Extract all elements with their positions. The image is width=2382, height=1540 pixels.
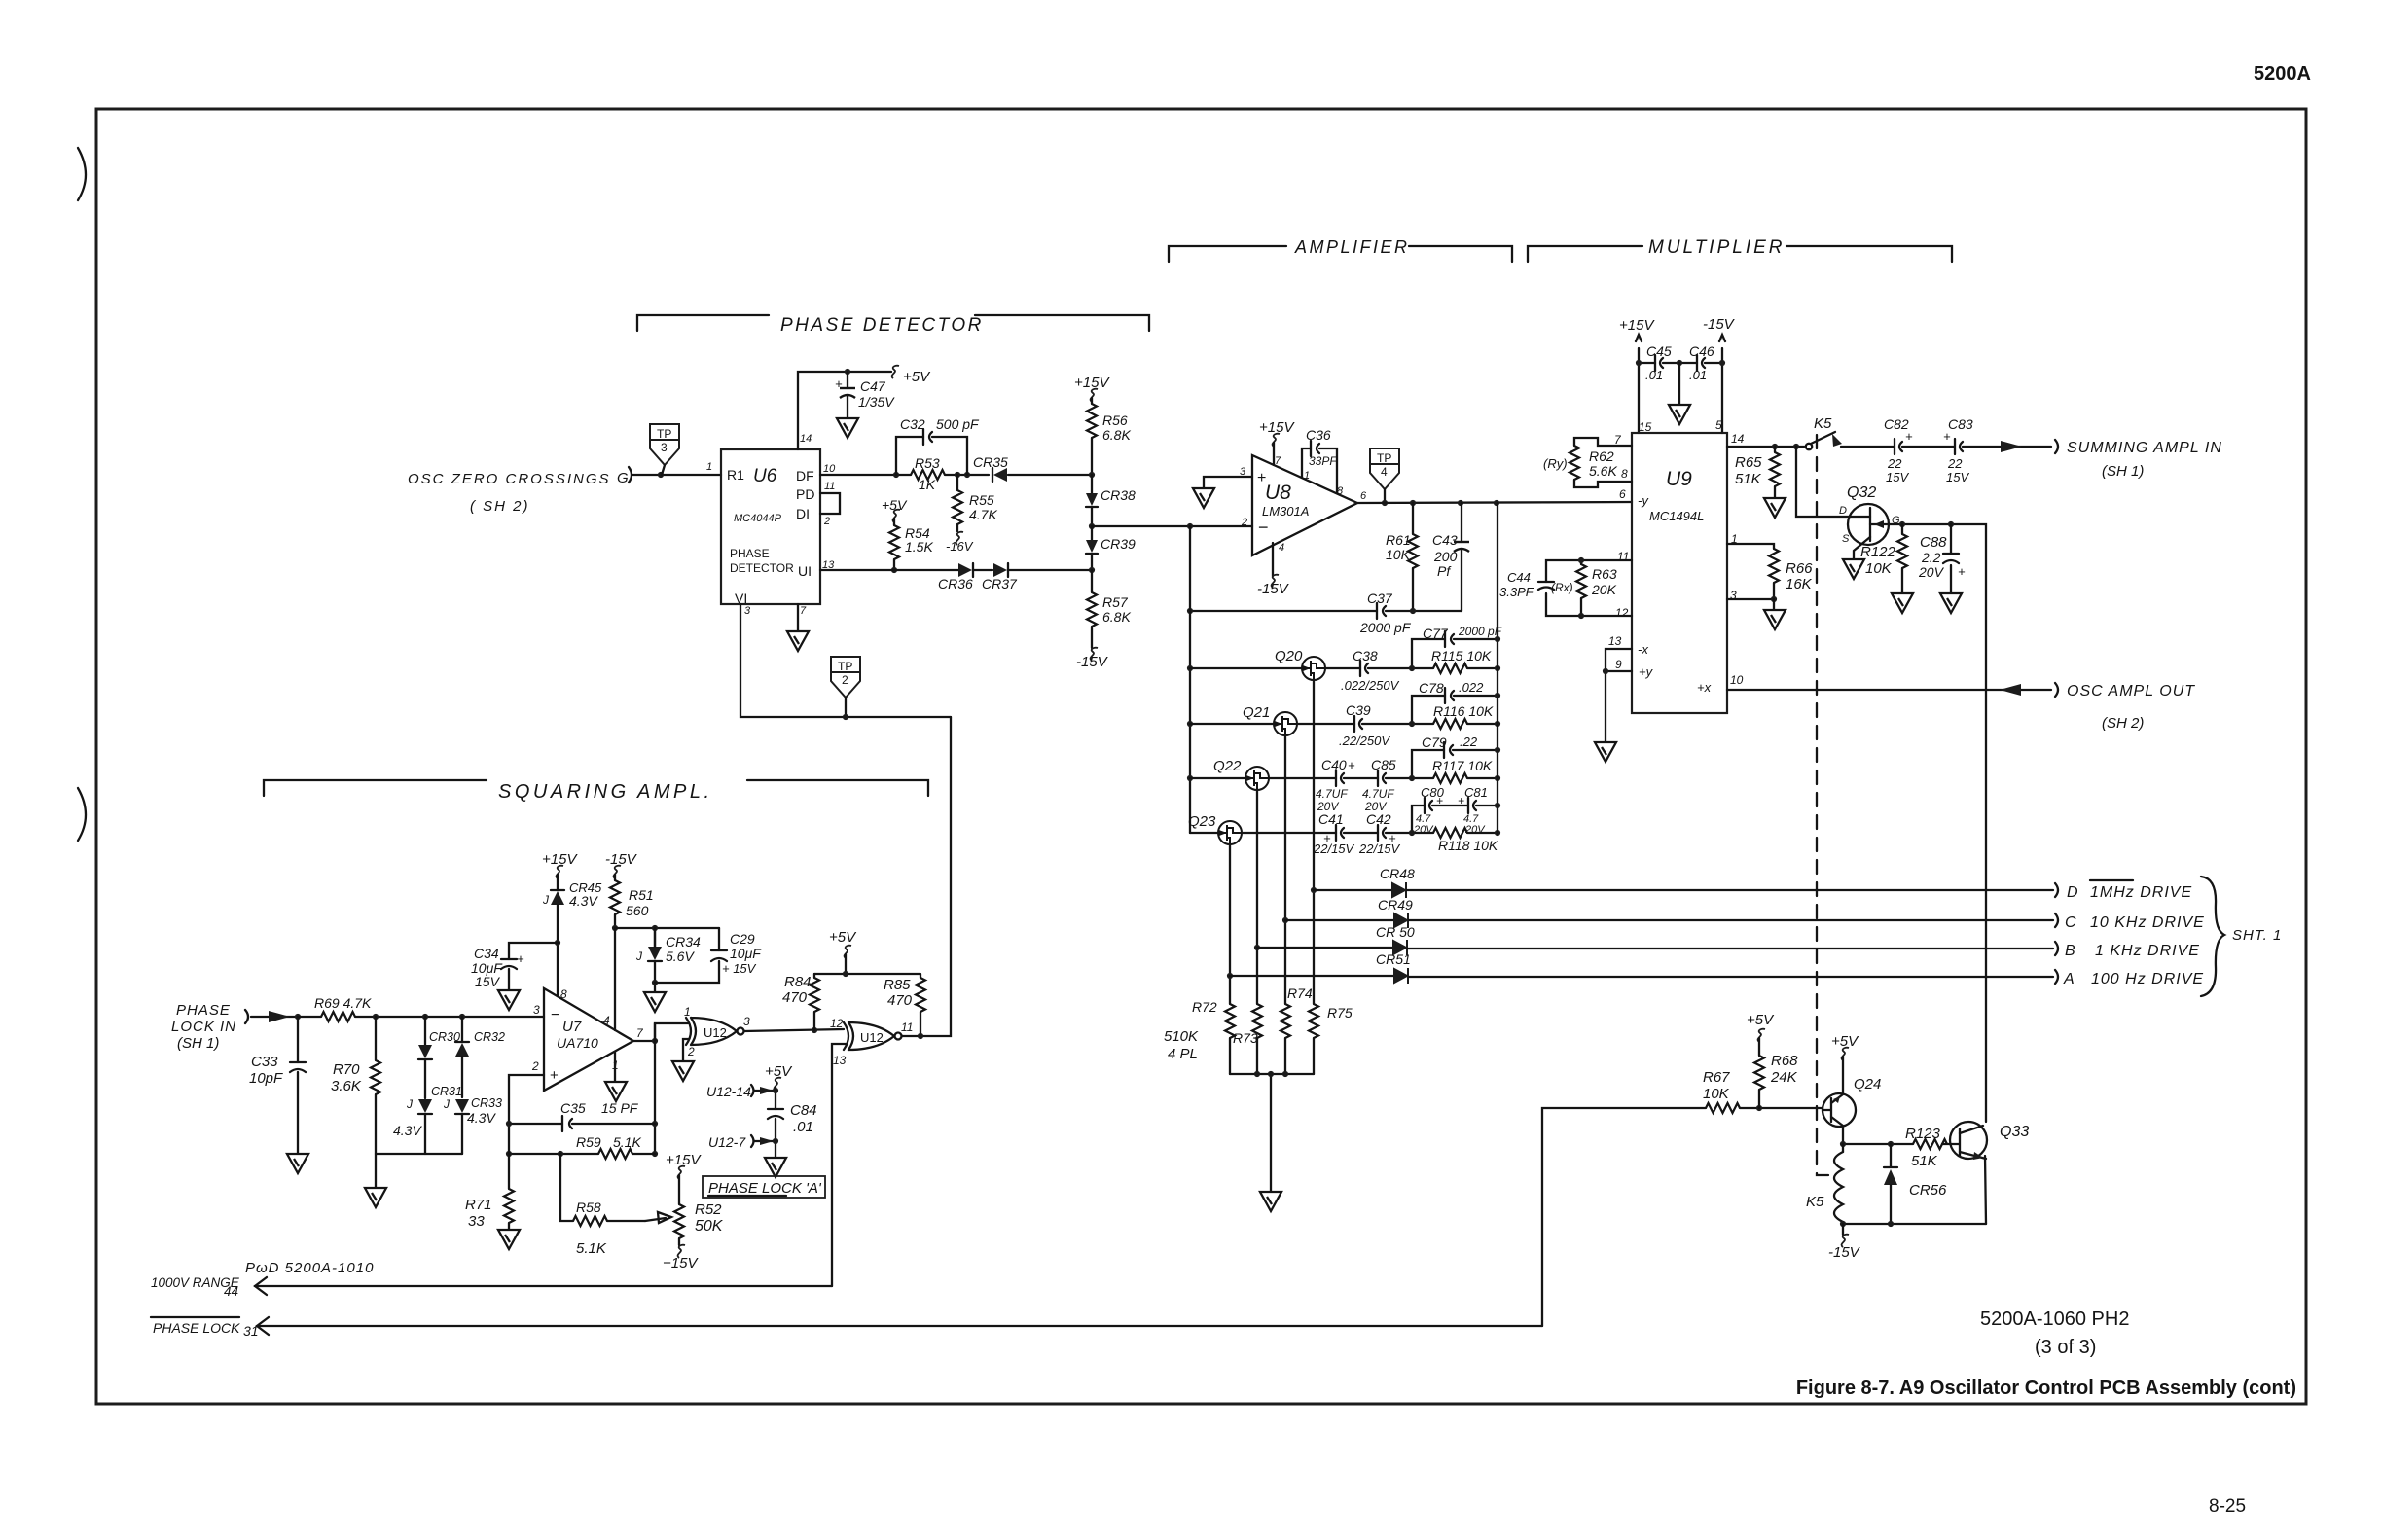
svg-text:C34: C34: [474, 946, 499, 961]
svg-text:10: 10: [823, 463, 836, 475]
node +5V rail label: [892, 366, 932, 385]
transistor Q20: [1190, 648, 1325, 680]
node +15V rail U9: [1619, 317, 1655, 433]
gate U12b: [830, 1017, 913, 1067]
wire U6 pin11 PD to DI loop: [820, 493, 840, 514]
svg-text:+: +: [1905, 429, 1913, 444]
svg-text:( SH 2): ( SH 2): [470, 498, 530, 515]
capacitor C83 22/15V: [1943, 416, 1973, 484]
diode CR32: [455, 1014, 505, 1097]
svg-text:-15V: -15V: [1703, 316, 1736, 333]
node drive line B label: [2055, 942, 2200, 959]
svg-text:R70: R70: [333, 1061, 360, 1078]
svg-text:6: 6: [1619, 487, 1626, 501]
svg-text:C46: C46: [1689, 343, 1714, 359]
svg-text:C77: C77: [1423, 626, 1449, 641]
svg-text:15V: 15V: [1946, 470, 1969, 484]
resistor R66 16K pins 1-3: [1727, 544, 1813, 609]
wire U9 pins 13-9 jog to ground: [1603, 649, 1632, 741]
svg-text:C41: C41: [1318, 811, 1344, 827]
ground R70 CR31 CR33: [365, 1188, 386, 1207]
svg-text:+y: +y: [1639, 664, 1654, 679]
resistor R118 10K: [1409, 828, 1500, 853]
node 510K 4PL value label: [1164, 1028, 1199, 1062]
svg-text:TP: TP: [838, 660, 852, 673]
svg-text:U6: U6: [753, 466, 777, 486]
border frame: [96, 109, 2306, 1404]
svg-text:J: J: [443, 1097, 451, 1111]
svg-text:C42: C42: [1366, 811, 1391, 827]
ground C88: [1940, 593, 1962, 613]
relay switch K5: [1806, 415, 1842, 449]
svg-text:Pf: Pf: [1437, 563, 1452, 579]
node PHASE LOCK 31 output: [151, 1317, 1542, 1339]
diode CR56 flyback: [1884, 1144, 1947, 1224]
wire coil bottom line: [1843, 1223, 1986, 1225]
svg-text:10K: 10K: [1386, 547, 1411, 562]
svg-text:44: 44: [224, 1284, 238, 1299]
svg-text:200: 200: [1433, 549, 1458, 564]
svg-text:4: 4: [1279, 542, 1284, 554]
capacitor C45 .01: [1636, 343, 1679, 382]
svg-text:U12: U12: [860, 1030, 884, 1045]
svg-text:CR35: CR35: [973, 454, 1008, 470]
svg-text:500 pF: 500 pF: [936, 416, 980, 432]
svg-text:K5: K5: [1806, 1194, 1824, 1210]
capacitor C47: [835, 372, 895, 417]
svg-text:Q32: Q32: [1847, 484, 1876, 501]
ground C45 C46: [1678, 363, 1680, 404]
svg-text:CR36: CR36: [938, 576, 973, 591]
svg-text:+5V: +5V: [903, 369, 931, 385]
svg-text:TP: TP: [657, 427, 671, 441]
svg-text:+ 15V: + 15V: [722, 961, 757, 976]
svg-text:5.6K: 5.6K: [1589, 463, 1617, 479]
svg-text:R65: R65: [1735, 454, 1762, 471]
svg-text:LM301A: LM301A: [1262, 504, 1309, 519]
svg-text:1K: 1K: [919, 477, 936, 492]
svg-text:S: S: [1842, 533, 1850, 545]
svg-text:8: 8: [560, 987, 567, 1001]
ground U7 pin1: [614, 1052, 616, 1081]
svg-text:+: +: [1943, 429, 1951, 444]
svg-text:15 PF: 15 PF: [601, 1100, 639, 1116]
svg-text:51K: 51K: [1735, 471, 1762, 487]
svg-text:+: +: [1348, 758, 1355, 772]
node +5V C84: [765, 1063, 793, 1157]
svg-text:-15V: -15V: [605, 851, 638, 868]
resistor R70 3.6K: [331, 1014, 380, 1154]
node SQUARING AMPL section bracket: [264, 780, 928, 803]
svg-text:R74: R74: [1287, 985, 1313, 1001]
capacitor C79 .22 loop: [1412, 734, 1498, 778]
svg-text:CR38: CR38: [1101, 487, 1136, 503]
node +5V R84 R85: [829, 929, 857, 977]
resistor R51 560: [610, 880, 654, 931]
ground C33: [287, 1154, 308, 1173]
svg-text:3: 3: [744, 605, 751, 617]
svg-text:CR56: CR56: [1909, 1182, 1947, 1199]
wire 1KHz drive line: [1408, 948, 2053, 949]
resistor R85 470: [814, 974, 925, 1036]
wire riser PHASE LOCK to R67: [1542, 1108, 1706, 1326]
svg-text:C32: C32: [900, 416, 925, 432]
svg-text:10K: 10K: [1865, 560, 1893, 577]
svg-text:R66: R66: [1786, 560, 1813, 577]
svg-text:2000 pF: 2000 pF: [1458, 625, 1502, 638]
wire R67 to Q24 base: [1740, 1107, 1823, 1109]
resistor R57 6.8K: [1076, 570, 1131, 670]
svg-text:U12-7: U12-7: [708, 1134, 746, 1150]
test point TP3: [650, 424, 679, 475]
svg-text:7: 7: [1275, 455, 1281, 467]
svg-text:C79: C79: [1422, 734, 1447, 750]
svg-text:-15V: -15V: [1828, 1244, 1861, 1261]
svg-text:-16V: -16V: [946, 539, 974, 554]
resistor R74: [1281, 985, 1313, 1038]
svg-text:510K: 510K: [1164, 1028, 1199, 1045]
ground C34: [498, 990, 520, 1010]
diode CR48: [1314, 866, 1415, 898]
diode CR30: [418, 1014, 460, 1098]
resistor R67 10K: [1703, 1069, 1740, 1113]
svg-text:C37: C37: [1367, 591, 1393, 606]
svg-text:7: 7: [800, 605, 807, 617]
svg-text:15: 15: [1639, 420, 1652, 434]
svg-text:Figure 8-7. A9 Oscillator Cont: Figure 8-7. A9 Oscillator Control PCB As…: [1796, 1378, 2296, 1399]
transistor Q22: [1190, 758, 1269, 790]
wire R51 junction line to CR34 C29: [615, 927, 719, 929]
svg-text:R122: R122: [1860, 544, 1896, 560]
svg-text:CR48: CR48: [1380, 866, 1415, 881]
svg-text:2000 pF: 2000 pF: [1359, 620, 1412, 635]
wire C82 to C83: [1902, 446, 1954, 448]
svg-text:MC4044P: MC4044P: [734, 513, 782, 524]
op-amp U8 LM301A: [1240, 455, 1367, 555]
capacitor C43 200pF: [1432, 503, 1469, 611]
diode CR50: [1257, 924, 1415, 955]
svg-text:U12-14: U12-14: [706, 1084, 751, 1099]
svg-text:8-25: 8-25: [2209, 1496, 2246, 1517]
capacitor C35 15PF: [509, 1100, 655, 1131]
node PHASE LOCK A box: [703, 1176, 825, 1198]
capacitor C81 4.7 20V: [1458, 785, 1498, 836]
wire U8 pin3 to ground: [1204, 477, 1252, 487]
svg-text:SUMMING AMPL IN: SUMMING AMPL IN: [2067, 440, 2222, 456]
svg-text:MULTIPLIER: MULTIPLIER: [1648, 237, 1786, 258]
resistor R58 5.1K: [560, 1154, 671, 1257]
svg-text:.22: .22: [1460, 734, 1478, 749]
diode CR49: [1285, 897, 1413, 928]
svg-text:C35: C35: [560, 1100, 586, 1116]
node +15V rail R56: [1074, 375, 1110, 475]
capacitor C34 10uF 15V: [471, 943, 558, 989]
svg-text:R52: R52: [695, 1201, 722, 1218]
svg-text:U12: U12: [704, 1025, 727, 1040]
resistor R75: [1309, 1004, 1353, 1038]
svg-text:C36: C36: [1306, 427, 1331, 443]
svg-text:UI: UI: [798, 563, 812, 579]
svg-text:OSC ZERO CROSSINGS: OSC ZERO CROSSINGS: [408, 471, 611, 487]
svg-text:1: 1: [1304, 470, 1310, 482]
capacitor C42 22/15V: [1358, 811, 1412, 856]
svg-text:6.8K: 6.8K: [1102, 609, 1131, 625]
svg-text:LOCK IN: LOCK IN: [171, 1019, 236, 1035]
ground R65: [1764, 498, 1786, 518]
ground under C47: [837, 418, 858, 438]
svg-text:20V: 20V: [1918, 564, 1945, 580]
svg-text:1: 1: [684, 1005, 691, 1019]
svg-text:U7: U7: [562, 1019, 582, 1035]
svg-text:5.1K: 5.1K: [576, 1240, 607, 1257]
wire resistor bottom join: [1230, 1074, 1314, 1191]
svg-text:2: 2: [687, 1045, 695, 1058]
capacitor C40 4.7UF 20V: [1269, 757, 1378, 813]
svg-text:R59: R59: [576, 1134, 601, 1150]
svg-text:R67: R67: [1703, 1069, 1730, 1086]
svg-text:PHASE: PHASE: [730, 547, 770, 560]
svg-text:22/15V: 22/15V: [1313, 842, 1355, 856]
resistor R122 10K: [1860, 524, 1907, 592]
svg-text:15V: 15V: [1886, 470, 1909, 484]
node PHASE DETECTOR section bracket: [637, 315, 1149, 336]
svg-text:R118 10K: R118 10K: [1438, 838, 1498, 853]
svg-text:Q33: Q33: [2000, 1124, 2029, 1140]
svg-text:9: 9: [1615, 658, 1622, 671]
svg-text:3.3PF: 3.3PF: [1499, 585, 1534, 599]
resistor R123 51K: [1905, 1126, 1947, 1169]
svg-text:+15V: +15V: [1074, 375, 1110, 391]
svg-text:+: +: [1458, 794, 1464, 807]
wire Q21 source column: [1284, 735, 1286, 1074]
svg-text:R71: R71: [465, 1197, 492, 1213]
svg-text:CR37: CR37: [982, 576, 1018, 591]
svg-text:20K: 20K: [1591, 582, 1617, 597]
svg-text:(SH 1): (SH 1): [2102, 463, 2144, 480]
svg-text:C47: C47: [860, 378, 886, 394]
diode CR31: [393, 1085, 462, 1154]
svg-text:13: 13: [833, 1054, 847, 1067]
svg-text:14: 14: [1731, 432, 1745, 446]
svg-text:C39: C39: [1346, 702, 1371, 718]
wire Q24 collector to K5 R123: [1843, 1127, 1913, 1144]
svg-text:R61: R61: [1386, 532, 1411, 548]
capacitor C41 22/15V: [1242, 811, 1378, 856]
transistor Q24: [1823, 1076, 1881, 1127]
test point TP4: [1370, 448, 1399, 506]
svg-text:C88: C88: [1920, 534, 1947, 551]
node U12-14 arrow: [706, 1084, 778, 1099]
node PHASE LOCK IN label: [171, 1002, 248, 1052]
wire output bus vertical: [654, 928, 656, 1154]
diode CR39: [1086, 526, 1136, 570]
wire Q33 emitter down to coil line: [1985, 1156, 1986, 1224]
test point TP2: [831, 657, 860, 720]
svg-text:Q21: Q21: [1243, 704, 1270, 721]
svg-text:R62: R62: [1589, 448, 1614, 464]
capacitor C33 10pF: [249, 1014, 306, 1153]
ground under R72-75: [1260, 1192, 1281, 1211]
svg-text:8: 8: [1621, 467, 1628, 481]
svg-text:3: 3: [533, 1003, 540, 1017]
transistor Q21: [1190, 704, 1297, 735]
svg-text:K5: K5: [1814, 415, 1832, 432]
resistor R56 6.8K: [1087, 404, 1131, 443]
resistor R61 10K: [1386, 503, 1418, 611]
svg-text:R117 10K: R117 10K: [1432, 758, 1493, 773]
svg-text:Q22: Q22: [1213, 758, 1242, 774]
svg-text:33PF: 33PF: [1309, 454, 1337, 468]
wire: binding mark mid left: [78, 788, 86, 841]
wire input to U6 pin 1: [632, 474, 721, 476]
diode CR35: [973, 454, 1008, 482]
svg-text:13: 13: [1608, 634, 1622, 648]
relay coil K5: [1806, 1144, 1843, 1224]
svg-text:4.7K: 4.7K: [969, 507, 997, 522]
svg-text:5200A: 5200A: [2254, 63, 2311, 85]
ground Q32 source: [1843, 559, 1864, 579]
resistor R84 470: [782, 974, 819, 1030]
svg-text:4: 4: [1381, 465, 1388, 479]
svg-text:SHT. 1: SHT. 1: [2232, 927, 2282, 944]
wire CR38 CR39 junction to U8 pin2: [1092, 525, 1252, 527]
svg-text:R51: R51: [629, 887, 654, 903]
svg-text:−15V: −15V: [663, 1255, 699, 1271]
svg-text:OSC AMPL OUT: OSC AMPL OUT: [2067, 683, 2195, 699]
node -15V rail U9: [1703, 316, 1736, 433]
svg-text:+: +: [550, 1067, 559, 1084]
wire U8 output to U9 pin6: [1357, 502, 1632, 503]
resistor R117 10K: [1409, 758, 1500, 783]
svg-text:(Rx): (Rx): [1551, 581, 1573, 594]
node +15V U8 pin7: [1259, 419, 1295, 465]
svg-text:4.3V: 4.3V: [569, 893, 598, 909]
ground U6 pin7: [797, 604, 799, 630]
svg-text:22: 22: [1887, 456, 1902, 471]
wire switch to C82: [1841, 446, 1894, 448]
svg-text:J: J: [542, 893, 550, 907]
wire U12a input1: [655, 1023, 688, 1041]
svg-text:-15V: -15V: [1076, 654, 1109, 670]
svg-text:Q23: Q23: [1188, 813, 1216, 830]
svg-text:10 KHz DRIVE: 10 KHz DRIVE: [2090, 914, 2205, 931]
wire U7 output pin7: [633, 1040, 655, 1042]
node +15V rail CR45: [542, 851, 578, 890]
svg-text:C81: C81: [1464, 785, 1488, 800]
node -15V rail R51: [605, 851, 638, 880]
svg-text:+5V: +5V: [882, 497, 908, 513]
svg-text:C44: C44: [1507, 570, 1531, 585]
wire Q22 source column: [1256, 790, 1258, 1074]
capacitor C85 4.7UF 20V: [1362, 757, 1412, 813]
svg-text:R123: R123: [1905, 1126, 1941, 1142]
ground CR34: [644, 992, 666, 1012]
resistor R116 10K: [1409, 703, 1500, 729]
svg-text:A: A: [2063, 971, 2075, 987]
svg-text:2: 2: [1241, 517, 1247, 528]
svg-text:22: 22: [1947, 456, 1963, 471]
svg-text:24K: 24K: [1770, 1069, 1798, 1086]
svg-text:33: 33: [468, 1213, 485, 1230]
svg-text:−: −: [1258, 518, 1269, 537]
node drive line A label: [2055, 970, 2204, 987]
node OSC ZERO CROSSINGS input label: [408, 467, 632, 515]
resistor R53 1K: [911, 455, 945, 492]
svg-text:1/35V: 1/35V: [858, 394, 895, 410]
svg-text:2: 2: [842, 673, 848, 687]
svg-text:CR34: CR34: [666, 934, 701, 949]
svg-text:C38: C38: [1353, 648, 1378, 663]
wire U6 VI pin3 down to TP2 line: [740, 604, 951, 717]
svg-text:UA710: UA710: [557, 1035, 598, 1051]
svg-text:5: 5: [1715, 418, 1722, 432]
svg-text:-y: -y: [1638, 493, 1649, 508]
svg-text:3: 3: [743, 1015, 750, 1028]
ground U8 pin3: [1193, 488, 1214, 508]
svg-text:R53: R53: [915, 455, 940, 471]
svg-text:6.8K: 6.8K: [1102, 427, 1131, 443]
svg-text:DF: DF: [796, 468, 814, 483]
node +5V Q24 emitter: [1831, 1033, 1859, 1093]
diode CR33: [443, 1096, 502, 1154]
svg-text:R1: R1: [727, 467, 744, 483]
svg-text:C40: C40: [1321, 757, 1347, 772]
capacitor C88 2.2 20V: [1918, 524, 1966, 592]
svg-text:11: 11: [824, 481, 835, 492]
svg-text:+15V: +15V: [1619, 317, 1655, 334]
transistor Q32: [1796, 447, 1900, 558]
transistor Q23: [1188, 813, 1242, 844]
node -15V K5: [1828, 1224, 1861, 1261]
svg-text:D: D: [1839, 505, 1847, 517]
svg-text:1.5K: 1.5K: [905, 539, 933, 555]
svg-text:5.1K: 5.1K: [613, 1134, 641, 1150]
svg-text:PHASE: PHASE: [176, 1002, 231, 1019]
wire U6 pin14 to +5V rail: [798, 372, 891, 449]
svg-text:51K: 51K: [1911, 1153, 1938, 1169]
svg-text:+5V: +5V: [829, 929, 857, 946]
svg-text:20V: 20V: [1464, 824, 1486, 836]
svg-text:-x: -x: [1638, 642, 1648, 657]
resistor R54 1.5K: [882, 497, 933, 573]
svg-text:C29: C29: [730, 931, 755, 947]
capacitor C32 500pF feedback loop: [896, 416, 980, 475]
svg-text:C83: C83: [1948, 416, 1973, 432]
svg-text:R85: R85: [884, 977, 911, 993]
wire dashed relay linkage K5: [1817, 435, 1832, 1175]
svg-text:15V: 15V: [475, 974, 501, 989]
svg-text:(Ry): (Ry): [1543, 456, 1568, 471]
svg-text:MC1494L: MC1494L: [1649, 509, 1704, 523]
diode CR51: [1230, 951, 1411, 984]
svg-text:R72: R72: [1192, 999, 1217, 1015]
node drive line C label: [2055, 913, 2205, 931]
potentiometer R52 50K: [663, 1152, 724, 1271]
svg-text:CR51: CR51: [1376, 951, 1411, 967]
diode CR45 4.3V zener: [542, 880, 602, 943]
svg-text:2.2: 2.2: [1921, 550, 1941, 565]
diode CR38: [1086, 475, 1136, 526]
svg-text:R116 10K: R116 10K: [1433, 703, 1494, 719]
svg-text:(SH 1): (SH 1): [177, 1035, 219, 1052]
svg-text:J: J: [635, 949, 643, 963]
svg-text:R57: R57: [1102, 594, 1129, 610]
svg-text:4.3V: 4.3V: [467, 1110, 496, 1126]
svg-text:4.7UF: 4.7UF: [1362, 787, 1394, 801]
svg-text:CR49: CR49: [1378, 897, 1413, 913]
svg-text:R58: R58: [576, 1200, 601, 1215]
wire right feedback column: [1497, 503, 1498, 834]
